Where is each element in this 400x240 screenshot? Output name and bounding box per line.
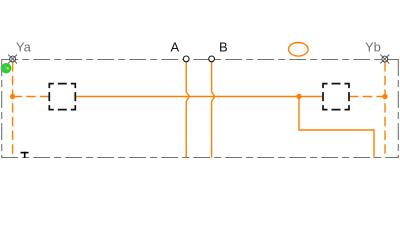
junction dot middle bbox=[296, 94, 301, 99]
svg-text:A: A bbox=[171, 40, 180, 55]
terminal A (node circle) bbox=[183, 56, 189, 62]
marker green (status dot on left frame edge) bbox=[1, 63, 11, 73]
terminal B (node circle) bbox=[209, 56, 215, 62]
wire right horizontal (dashed, box2 to right node) bbox=[349, 96, 385, 98]
svg-text:B: B bbox=[219, 40, 228, 55]
wire branch (solid, from junction down then right then down to frame) bbox=[299, 97, 374, 158]
wire left vertical (dashed, from Ya down to frame bottom) bbox=[12, 62, 14, 158]
terminal Yb (circle with X) bbox=[380, 55, 389, 64]
probe ellipse bbox=[289, 43, 309, 57]
component box1 (dashed square) bbox=[49, 84, 75, 110]
junction dot left bbox=[10, 94, 15, 99]
wire left horizontal (dashed, node to box1) bbox=[13, 96, 50, 98]
svg-text:Yb: Yb bbox=[365, 39, 381, 54]
wire main horizontal bus (solid, box1 to box2) bbox=[75, 96, 323, 98]
schematic frame (dash-dot border) bbox=[1, 59, 399, 158]
wire A vertical (solid with hop over bus) bbox=[186, 62, 189, 158]
svg-text:Ya: Ya bbox=[16, 40, 32, 55]
ground T symbol bbox=[21, 152, 29, 158]
junction dot right bbox=[382, 94, 387, 99]
wire B vertical (solid with hop over bus) bbox=[212, 62, 215, 158]
terminal Ya (circle with X) bbox=[8, 55, 17, 64]
wire right vertical (dashed, from Yb down to frame bottom) bbox=[384, 62, 386, 158]
component box2 (dashed square) bbox=[323, 84, 349, 110]
